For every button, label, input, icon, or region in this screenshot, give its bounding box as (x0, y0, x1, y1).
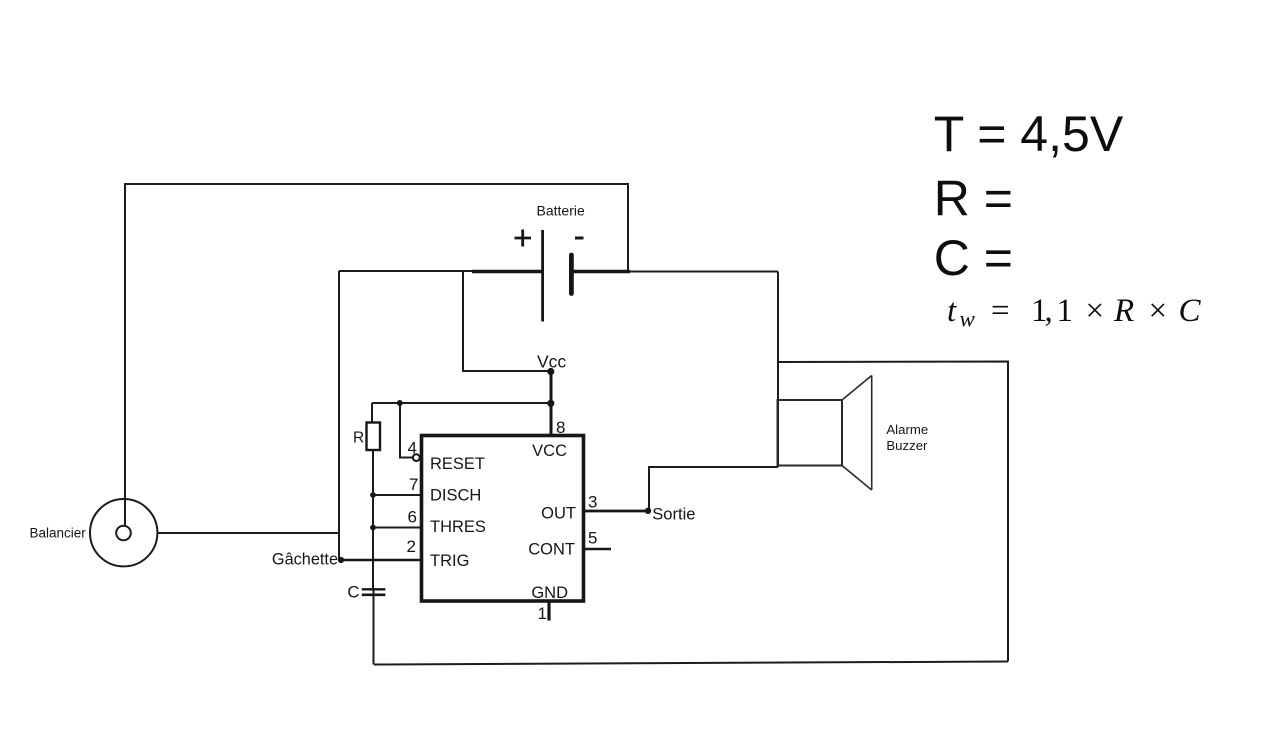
svg-text:5: 5 (588, 529, 597, 548)
svg-text:C: C (347, 583, 359, 602)
svg-text:T = 4,5V: T = 4,5V (934, 106, 1124, 162)
svg-text:R =: R = (934, 171, 1013, 227)
svg-text:Alarme: Alarme (886, 422, 928, 437)
svg-text:Buzzer: Buzzer (886, 438, 928, 453)
svg-text:CONT: CONT (528, 541, 575, 559)
svg-text:t: t (947, 293, 957, 329)
svg-text:8: 8 (556, 418, 565, 437)
svg-text:Batterie: Batterie (537, 203, 585, 219)
svg-text:w: w (960, 307, 976, 332)
svg-text:Vcc: Vcc (537, 352, 566, 372)
svg-text:=: = (991, 293, 1010, 329)
svg-text:4: 4 (408, 439, 417, 458)
svg-text:1: 1 (1057, 293, 1074, 329)
svg-text:THRES: THRES (430, 518, 486, 536)
svg-text:6: 6 (408, 507, 417, 526)
svg-text:VCC: VCC (532, 442, 567, 460)
svg-text:×: × (1086, 293, 1105, 329)
svg-text:R: R (1113, 293, 1134, 329)
svg-text:R: R (353, 429, 364, 446)
svg-text:Balancier: Balancier (30, 526, 87, 541)
svg-text:,: , (1045, 293, 1053, 329)
svg-text:DISCH: DISCH (430, 487, 481, 505)
svg-text:RESET: RESET (430, 455, 485, 473)
svg-text:Sortie: Sortie (652, 504, 695, 523)
svg-text:2: 2 (407, 537, 416, 556)
svg-text:GND: GND (531, 584, 568, 602)
svg-text:C =: C = (934, 230, 1013, 286)
svg-text:3: 3 (588, 493, 597, 512)
svg-text:×: × (1149, 293, 1168, 329)
svg-text:C: C (1179, 293, 1202, 329)
svg-text:7: 7 (409, 475, 418, 494)
svg-text:1: 1 (538, 604, 547, 623)
svg-text:TRIG: TRIG (430, 552, 469, 570)
svg-text:Gâchette: Gâchette (272, 551, 338, 569)
svg-text:OUT: OUT (541, 504, 576, 522)
